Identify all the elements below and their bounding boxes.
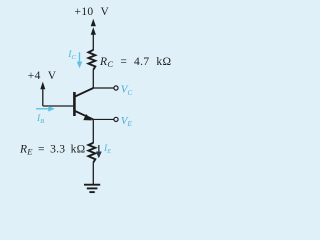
wire: emitter to RE <box>92 119 94 143</box>
current arrow IC <box>77 52 82 68</box>
resistor RC <box>88 50 95 70</box>
wire: emitter node <box>93 118 114 120</box>
svg-text:+4 V: +4 V <box>28 70 57 82</box>
power supply arrow (+10 V) <box>91 19 96 50</box>
wire: collector node <box>93 69 114 88</box>
current arrow IB <box>36 106 54 111</box>
terminal VE <box>114 117 118 121</box>
wire: RE to ground <box>92 162 94 185</box>
transistor Q1 <box>74 88 93 119</box>
svg-text:+10 V: +10 V <box>75 6 110 18</box>
power supply arrow (+4 V) <box>40 82 45 106</box>
ground <box>84 185 100 192</box>
wire: base <box>43 105 73 107</box>
terminal VC <box>114 86 118 90</box>
current arrow IE <box>96 145 101 158</box>
transistor emitter arrowhead <box>83 114 92 120</box>
resistor RE <box>88 143 95 163</box>
